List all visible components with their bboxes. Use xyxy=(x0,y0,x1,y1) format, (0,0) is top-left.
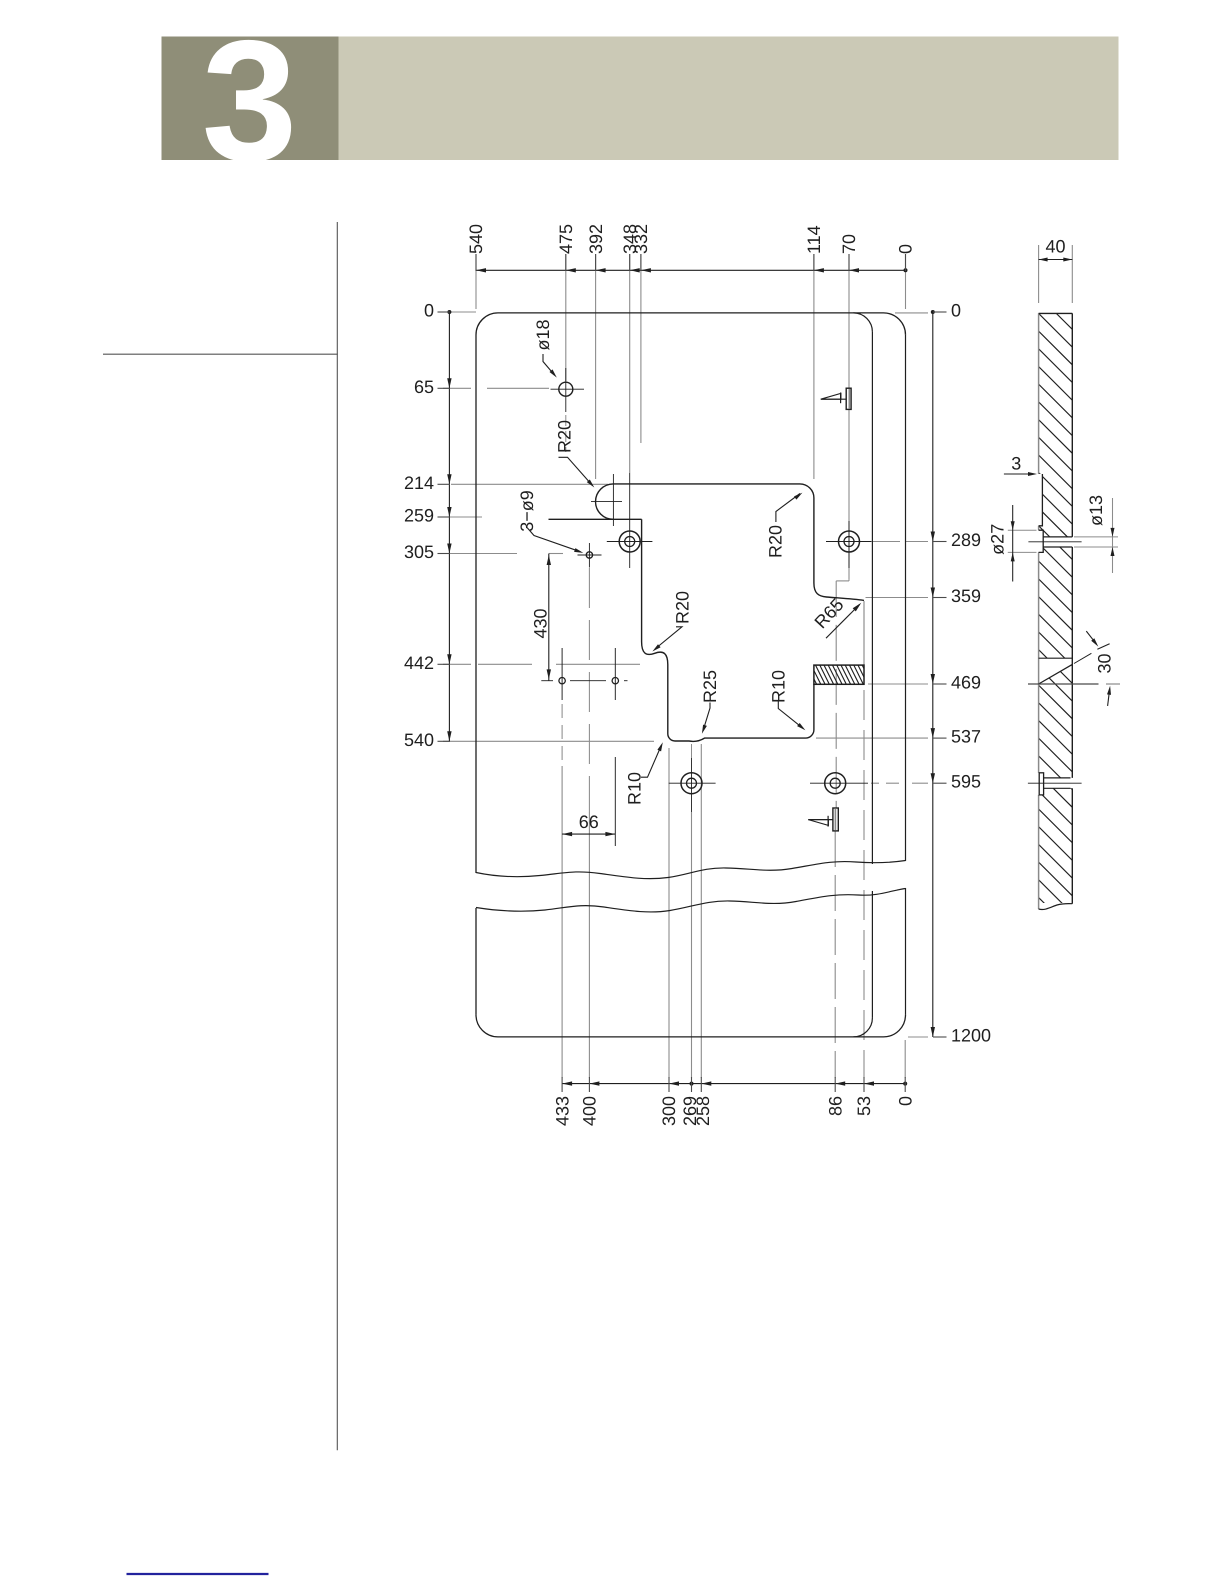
plate outline right edge lower (outer) xyxy=(905,888,907,1015)
svg-text:114: 114 xyxy=(804,225,824,254)
plate outline bottom-left corner xyxy=(476,1015,498,1037)
cutout left edge with R20 jog xyxy=(642,519,814,741)
right ordinate extension 537 xyxy=(816,737,928,739)
clamping bar (hatched) xyxy=(807,665,872,684)
connector bolt bottom xyxy=(808,808,838,831)
break line lower xyxy=(476,889,906,912)
chapter banner light bar xyxy=(339,37,1119,161)
hole2 extension to 66 dim xyxy=(614,757,616,846)
plate edge profile line bottom-right corner (inner) xyxy=(853,1018,872,1037)
label R20 jog with leader xyxy=(652,591,692,652)
hole Ø9 #1 (row 305) xyxy=(578,543,602,568)
svg-text:469: 469 xyxy=(951,673,981,693)
right ordinate extension 595 xyxy=(871,782,928,784)
plate edge profile line right upper (inner) xyxy=(871,332,873,864)
plate outline bottom edge xyxy=(498,1036,884,1038)
label R65 with leader xyxy=(811,595,862,639)
left ordinate extension 214 xyxy=(451,483,608,485)
svg-text:66: 66 xyxy=(579,812,599,832)
left margin vertical rule xyxy=(336,222,338,1450)
svg-text:0: 0 xyxy=(896,244,916,254)
svg-text:ø13: ø13 xyxy=(1086,495,1106,526)
svg-text:433: 433 xyxy=(552,1096,572,1126)
right ordinate extension 289 xyxy=(872,541,928,543)
top ordinate labels xyxy=(466,224,916,254)
top ordinate dimension line xyxy=(476,254,908,273)
bottom ordinate line 86 xyxy=(834,831,836,1078)
section right face xyxy=(1071,313,1073,903)
section Ø13 hole xyxy=(1043,537,1072,547)
svg-text:R10: R10 xyxy=(769,670,789,703)
svg-text:258: 258 xyxy=(693,1096,713,1126)
bottom ordinate line 300 xyxy=(668,748,670,1078)
plate edge profile line right lower (inner) xyxy=(871,891,873,1018)
hole Ø9 #3 (row 430) xyxy=(612,678,618,684)
left ordinate extension 0 xyxy=(443,311,476,313)
svg-text:0: 0 xyxy=(424,301,434,321)
bottom ordinate line 53 xyxy=(863,690,865,1078)
left ordinate extension 259 xyxy=(443,516,482,518)
label 430 dimension xyxy=(531,554,552,681)
label R10 right with leader xyxy=(769,670,806,730)
label R20 corner with leader xyxy=(766,493,803,558)
top ordinate extension 392 xyxy=(595,254,597,479)
section bolt shaft xyxy=(1028,778,1082,788)
plate outline lower left edge xyxy=(475,908,477,1015)
svg-text:ø18: ø18 xyxy=(533,319,553,350)
svg-text:0: 0 xyxy=(895,1096,915,1106)
section top edge xyxy=(1039,312,1073,314)
plate outline bottom-right corner (outer) xyxy=(884,1015,906,1037)
plate outline top edge xyxy=(498,312,884,314)
bottom ordinate line 269 (circle centerline) xyxy=(691,744,693,1078)
counterbore hole bottom-right xyxy=(810,773,868,794)
label R10 left with leader xyxy=(624,742,663,805)
svg-text:30: 30 xyxy=(1095,653,1115,673)
svg-text:540: 540 xyxy=(404,730,434,750)
plate outline top-left corner xyxy=(476,313,498,335)
top ordinate extension 70 (bolt centerline) xyxy=(848,254,850,579)
svg-text:595: 595 xyxy=(951,772,981,792)
section Ø27 dimension xyxy=(988,505,1037,582)
section Ø13 dimension xyxy=(1074,495,1118,573)
plate edge profile line top-right corner (inner) xyxy=(853,313,872,332)
left ordinate extension 442 xyxy=(443,663,640,665)
top ordinate extension 475 (hole centerline) xyxy=(565,254,567,452)
svg-text:359: 359 xyxy=(951,586,981,606)
section 3 label xyxy=(1004,454,1037,477)
svg-text:300: 300 xyxy=(659,1096,679,1126)
svg-text:392: 392 xyxy=(586,224,606,254)
counterbore hole top-left xyxy=(607,531,653,552)
top ordinate extension 332 xyxy=(640,254,642,443)
top ordinate extension 0 xyxy=(905,254,907,309)
left margin horizontal rule xyxy=(103,353,338,355)
svg-text:214: 214 xyxy=(404,473,434,493)
svg-text:ø27: ø27 xyxy=(988,524,1008,555)
section ramp void edge xyxy=(1039,657,1073,659)
counterbore hole bottom-left xyxy=(669,758,716,812)
svg-text:R20: R20 xyxy=(673,591,693,624)
label R20 semicircle with leader xyxy=(555,420,595,488)
left ordinate extension 540 xyxy=(443,740,654,742)
plate outline upper left edge xyxy=(475,335,477,873)
svg-text:R20: R20 xyxy=(766,525,786,558)
left ordinate labels xyxy=(404,301,434,750)
section bottom break line xyxy=(1039,904,1073,910)
section 30 angle dimension xyxy=(1074,631,1115,706)
top ordinate extension 114 xyxy=(813,254,815,479)
section left face xyxy=(1038,313,1040,909)
bolt centerline jog xyxy=(836,579,849,807)
plate outline top-right corner (outer) xyxy=(884,313,906,335)
counterbore hole top-right xyxy=(826,521,872,568)
svg-text:3−ø9: 3−ø9 xyxy=(517,490,537,532)
right ordinate extension 1200 xyxy=(908,1036,928,1038)
section 469 reference line xyxy=(1028,683,1120,685)
section hole centerline xyxy=(1028,541,1081,543)
section bolt head xyxy=(1039,773,1043,795)
svg-text:475: 475 xyxy=(556,224,576,254)
bottom ordinate line 258 xyxy=(700,744,702,1078)
svg-text:537: 537 xyxy=(951,727,981,747)
left ordinate extension 305 xyxy=(443,553,563,555)
cutout top edge and right side xyxy=(613,484,864,601)
svg-text:430: 430 xyxy=(531,608,551,638)
bottom ordinate labels xyxy=(552,1096,915,1126)
plate outline right edge upper (outer) xyxy=(905,335,907,861)
svg-text:0: 0 xyxy=(951,301,961,321)
section ramp hypotenuse xyxy=(1039,664,1073,684)
footnote rule xyxy=(127,1573,269,1575)
svg-text:1200: 1200 xyxy=(951,1026,991,1046)
svg-text:289: 289 xyxy=(951,530,981,550)
section hatching xyxy=(1039,296,1073,932)
hole Ø18 xyxy=(551,382,585,396)
svg-text:3: 3 xyxy=(202,5,298,197)
svg-text:540: 540 xyxy=(466,224,486,254)
top ordinate extension 348 (circle centerline) xyxy=(629,254,631,568)
cutout shelf edge (row 259) xyxy=(549,518,642,520)
break line upper xyxy=(476,861,906,879)
left ordinate extension 65 xyxy=(443,387,549,389)
section 3mm rebate xyxy=(1039,474,1043,526)
hole Ø9 #2 (row 430) xyxy=(559,543,590,684)
cutout semicircle notch R20 xyxy=(596,484,614,519)
top ordinate extension 540 xyxy=(475,254,477,309)
label 3-Ø9 with leader xyxy=(517,490,583,553)
svg-text:86: 86 xyxy=(825,1096,845,1116)
holes Ø9 row centerline xyxy=(541,648,627,700)
left ordinate dimension line xyxy=(438,310,452,741)
svg-text:40: 40 xyxy=(1045,237,1065,257)
bottom ordinate line 0 xyxy=(904,1040,906,1078)
svg-text:R20: R20 xyxy=(555,420,575,453)
svg-text:70: 70 xyxy=(839,234,859,254)
section 40 dimension xyxy=(1039,237,1073,304)
svg-text:400: 400 xyxy=(580,1096,600,1126)
svg-text:442: 442 xyxy=(404,653,434,673)
svg-text:259: 259 xyxy=(404,506,434,526)
bottom ordinate dimension line xyxy=(562,1077,907,1092)
connector bolt top xyxy=(821,388,851,409)
label Ø18 with leader xyxy=(533,319,557,377)
label R25 with leader xyxy=(700,670,720,734)
bottom ordinate line 400 (hole centerline) xyxy=(588,568,590,1078)
cutout semicircle center mark xyxy=(591,474,622,526)
chapter number 3 xyxy=(202,5,298,197)
label 66 dimension xyxy=(562,812,615,836)
svg-text:332: 332 xyxy=(631,224,651,254)
cutout R65 step line xyxy=(863,601,865,665)
right ordinate extension 359 xyxy=(866,597,929,599)
svg-text:53: 53 xyxy=(854,1096,874,1116)
svg-text:65: 65 xyxy=(414,377,434,397)
bottom ordinate line 433 (hole centerline) xyxy=(561,648,563,1078)
section Ø27 pocket xyxy=(1039,530,1044,552)
right ordinate extension 469 xyxy=(868,683,928,685)
svg-text:305: 305 xyxy=(404,542,434,562)
svg-text:3: 3 xyxy=(1011,454,1021,474)
right ordinate dimension line xyxy=(931,310,947,1037)
right ordinate labels xyxy=(951,301,991,1046)
right ordinate extension 0 xyxy=(895,312,928,314)
chapter banner dark block xyxy=(162,37,339,161)
svg-text:R25: R25 xyxy=(700,670,720,703)
